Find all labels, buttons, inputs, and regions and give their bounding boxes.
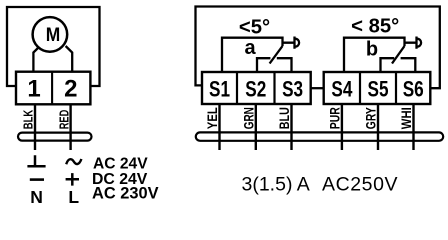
svg-text:AC 230V: AC 230V	[92, 185, 159, 203]
actuator housing left	[7, 7, 100, 86]
motor neck	[33, 46, 72, 72]
svg-text:RED: RED	[56, 110, 71, 130]
terminal block S4-S6	[324, 72, 431, 104]
cable bushing left	[18, 133, 92, 141]
AC symbol ~	[66, 159, 81, 164]
switch a common wire from S1	[222, 38, 283, 72]
svg-text:S3: S3	[282, 77, 303, 102]
svg-text:A: A	[297, 174, 310, 196]
svg-text:1: 1	[27, 76, 40, 103]
svg-text:a: a	[244, 37, 256, 59]
wire GRY	[377, 104, 379, 150]
wire RED	[69, 104, 71, 150]
svg-text:AC 24V: AC 24V	[93, 156, 148, 173]
switch b fixed contact S6	[401, 58, 416, 72]
switch a actuator	[283, 37, 300, 49]
switch b actuator	[405, 37, 422, 49]
wire WHI	[412, 104, 414, 150]
svg-text:S1: S1	[209, 77, 230, 102]
switch b fixed contact S5	[381, 58, 395, 72]
svg-text:L: L	[68, 187, 79, 207]
svg-text:BLU: BLU	[276, 107, 292, 129]
switch a fixed contact S3	[277, 58, 292, 72]
svg-text:<5°: <5°	[239, 17, 270, 39]
DC minus symbol	[30, 178, 44, 181]
wire PUR	[341, 104, 343, 150]
switch a arm	[270, 46, 283, 64]
wire BLU	[290, 104, 292, 150]
svg-text:YEL: YEL	[204, 107, 220, 129]
switch b arm	[392, 46, 405, 64]
auxiliary switch housing right	[196, 7, 440, 89]
protective earth symbol	[27, 155, 45, 166]
svg-text:M: M	[46, 25, 61, 46]
svg-text:S4: S4	[331, 77, 352, 102]
switch b common wire from S4	[344, 38, 405, 72]
terminal block 1-2	[16, 72, 90, 105]
wire BLK	[34, 104, 36, 150]
svg-text:S5: S5	[368, 77, 389, 102]
svg-text:S2: S2	[245, 77, 266, 102]
wire YEL	[218, 104, 220, 150]
svg-text:AC250V: AC250V	[322, 174, 398, 196]
svg-text:GRY: GRY	[363, 107, 379, 129]
svg-text:S6: S6	[403, 77, 424, 102]
svg-text:WHI: WHI	[398, 107, 414, 129]
svg-text:< 85°: < 85°	[351, 16, 399, 38]
svg-text:PUR: PUR	[327, 107, 343, 129]
housing bottom connector between blocks	[311, 87, 324, 89]
switch a fixed contact S2	[257, 58, 270, 72]
wire GRN	[255, 104, 257, 150]
terminal block S1-S3	[202, 72, 311, 104]
svg-text:b: b	[366, 38, 378, 60]
DC plus symbol	[66, 173, 79, 186]
cable bushing right	[196, 132, 443, 140]
svg-text:BLK: BLK	[21, 109, 36, 129]
svg-text:3(1.5): 3(1.5)	[242, 174, 293, 196]
svg-text:2: 2	[64, 76, 77, 103]
motor M circle	[33, 17, 68, 52]
svg-text:GRN: GRN	[241, 107, 257, 129]
svg-text:N: N	[30, 187, 43, 207]
